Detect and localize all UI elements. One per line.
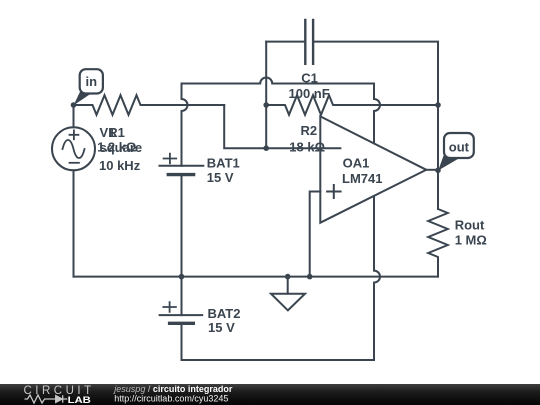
wire non-inverting input <box>310 192 321 277</box>
node inverting input junction dot <box>263 145 269 151</box>
svg-text:15 V: 15 V <box>207 170 234 185</box>
battery BAT2 <box>160 302 203 323</box>
wire bottom negative supply <box>182 359 375 361</box>
svg-text:R2: R2 <box>301 123 318 138</box>
wire BAT1 bottom stub <box>181 175 183 277</box>
node BAT1/rail junction dot <box>179 274 185 280</box>
flag in <box>74 69 103 105</box>
wire BAT2 top stub <box>181 277 183 316</box>
svg-text:18 kΩ: 18 kΩ <box>289 139 325 154</box>
wire BAT1 top stub with hop <box>182 84 188 166</box>
node inverting/R2 junction dot <box>263 102 269 108</box>
svg-text:http://circuitlab.com/cyu3245: http://circuitlab.com/cyu3245 <box>114 394 228 404</box>
resistor R1 <box>74 95 225 115</box>
svg-text:1.2 kΩ: 1.2 kΩ <box>97 140 136 155</box>
node +input/rail junction dot <box>307 274 313 280</box>
svg-text:10 kHz: 10 kHz <box>99 158 141 173</box>
svg-text:OA1: OA1 <box>343 156 370 171</box>
wire C1 left vertical (inverting node) <box>265 42 267 149</box>
wire R1 to inverting input <box>224 105 340 148</box>
wire C1 right to out node <box>313 42 438 209</box>
svg-text:BAT1: BAT1 <box>207 156 240 171</box>
svg-text:LAB: LAB <box>68 395 92 405</box>
resistor Rout <box>428 170 448 276</box>
svg-text:C1: C1 <box>301 70 318 85</box>
svg-text:BAT2: BAT2 <box>208 306 241 321</box>
node C1/R2 right junction dot <box>435 102 441 108</box>
flag out <box>438 133 474 171</box>
node ground junction dot <box>285 274 291 280</box>
svg-text:Rout: Rout <box>455 218 485 233</box>
wire V- supply pin with hop <box>374 196 380 360</box>
footer bar <box>0 384 540 405</box>
svg-text:R1: R1 <box>108 125 125 140</box>
svg-text:LM741: LM741 <box>342 171 382 186</box>
node out junction dot <box>435 168 441 174</box>
wire ground stub <box>287 277 289 294</box>
wire op-amp output pin <box>426 169 438 171</box>
resistor R2 <box>266 95 438 115</box>
svg-text:in: in <box>86 74 98 89</box>
svg-text:out: out <box>449 139 470 154</box>
wire V+ supply pin with hop <box>374 84 380 144</box>
ground symbol <box>271 294 305 311</box>
svg-text:1 MΩ: 1 MΩ <box>455 233 487 248</box>
battery BAT1 <box>160 154 204 175</box>
svg-text:100 nF: 100 nF <box>289 86 330 101</box>
wire in-node to V1 top <box>73 105 75 127</box>
capacitor C1 <box>305 20 313 64</box>
svg-text:15 V: 15 V <box>208 320 235 335</box>
svg-text:jesuspg / circuito integrador: jesuspg / circuito integrador <box>113 384 233 394</box>
wire V1 bottom to ground rail <box>73 170 75 276</box>
voltage source V1 <box>52 127 95 170</box>
wire ground rail <box>74 276 439 278</box>
wire C1 left <box>266 41 305 43</box>
logo diode <box>56 395 68 402</box>
wire BAT2 bottom stub <box>181 323 183 360</box>
node in junction dot <box>71 102 77 108</box>
logo resistor zigzag <box>25 395 57 403</box>
wire top supply rail with hop <box>182 78 375 84</box>
op-amp OA1 <box>320 116 426 222</box>
